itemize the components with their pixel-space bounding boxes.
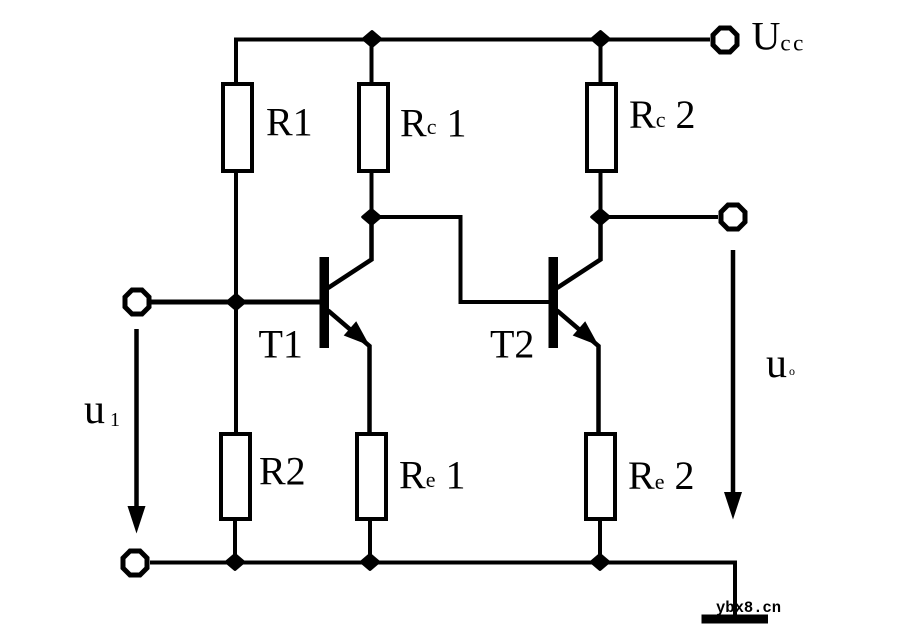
wire interstage coupling: [372, 217, 551, 302]
wire Rc1 top lead: [370, 39, 374, 84]
resistor Rc2: [587, 84, 616, 171]
node input / divider junction: [227, 295, 245, 310]
wire T2 emitter: [557, 311, 599, 434]
wire input lead: [151, 300, 321, 305]
transistor T1 base bar: [320, 257, 330, 348]
arrow uo output voltage: [731, 250, 736, 494]
resistor R2: [221, 434, 250, 519]
transistor T2 emitter arrowhead: [573, 321, 599, 345]
resistor Rc1: [359, 84, 388, 171]
wire Rc1 bottom lead: [370, 171, 374, 217]
wire Re2 bottom lead: [598, 520, 602, 562]
terminal Ucc: [713, 28, 737, 52]
node top rail / Rc2 junction: [592, 32, 610, 47]
wire R1 top lead: [234, 38, 238, 85]
ground: [702, 615, 769, 624]
terminal bottom left: [123, 551, 147, 575]
svg-text:ybx8.cn: ybx8.cn: [716, 599, 781, 617]
svg-text:R2: R2: [259, 449, 306, 494]
wire R2 bottom lead: [233, 520, 237, 562]
svg-text:u: u: [766, 341, 787, 387]
wire output lead: [601, 215, 719, 219]
wire top supply rail: [236, 38, 710, 42]
wire Rc2 bottom lead: [599, 171, 603, 217]
wire T1 collector: [328, 215, 372, 288]
resistor R1: [223, 84, 252, 171]
transistor T1 emitter arrowhead: [344, 321, 370, 345]
node T2 collector junction: [592, 210, 610, 225]
node bottom rail Re2 junction: [591, 555, 609, 570]
wire R1 bottom to R2 top: [234, 171, 238, 433]
node T1 collector junction: [363, 210, 381, 225]
svg-text:u: u: [84, 387, 105, 433]
svg-text:o: o: [789, 364, 795, 378]
wire Rc2 top lead: [599, 39, 603, 84]
wire T2 collector: [557, 215, 601, 288]
svg-text:T1: T1: [259, 322, 303, 367]
arrowhead u1: [128, 506, 146, 534]
svg-text:1: 1: [110, 409, 120, 431]
node bottom rail Re1 junction: [361, 555, 379, 570]
wire bottom rail: [150, 563, 735, 618]
resistor Re2: [586, 434, 615, 519]
wire Re1 bottom lead: [368, 520, 372, 562]
wire T1 emitter: [328, 311, 370, 434]
svg-text:R1: R1: [266, 100, 313, 145]
resistor Re1: [357, 434, 386, 519]
terminal input: [125, 290, 149, 314]
node bottom rail R2 junction: [226, 555, 244, 570]
node top rail / Rc1 junction: [363, 32, 381, 47]
arrowhead uo: [724, 492, 742, 520]
svg-text:T2: T2: [490, 322, 534, 367]
arrow u1 input voltage: [134, 329, 139, 508]
terminal output: [721, 205, 745, 229]
transistor T2 base bar: [549, 257, 559, 348]
